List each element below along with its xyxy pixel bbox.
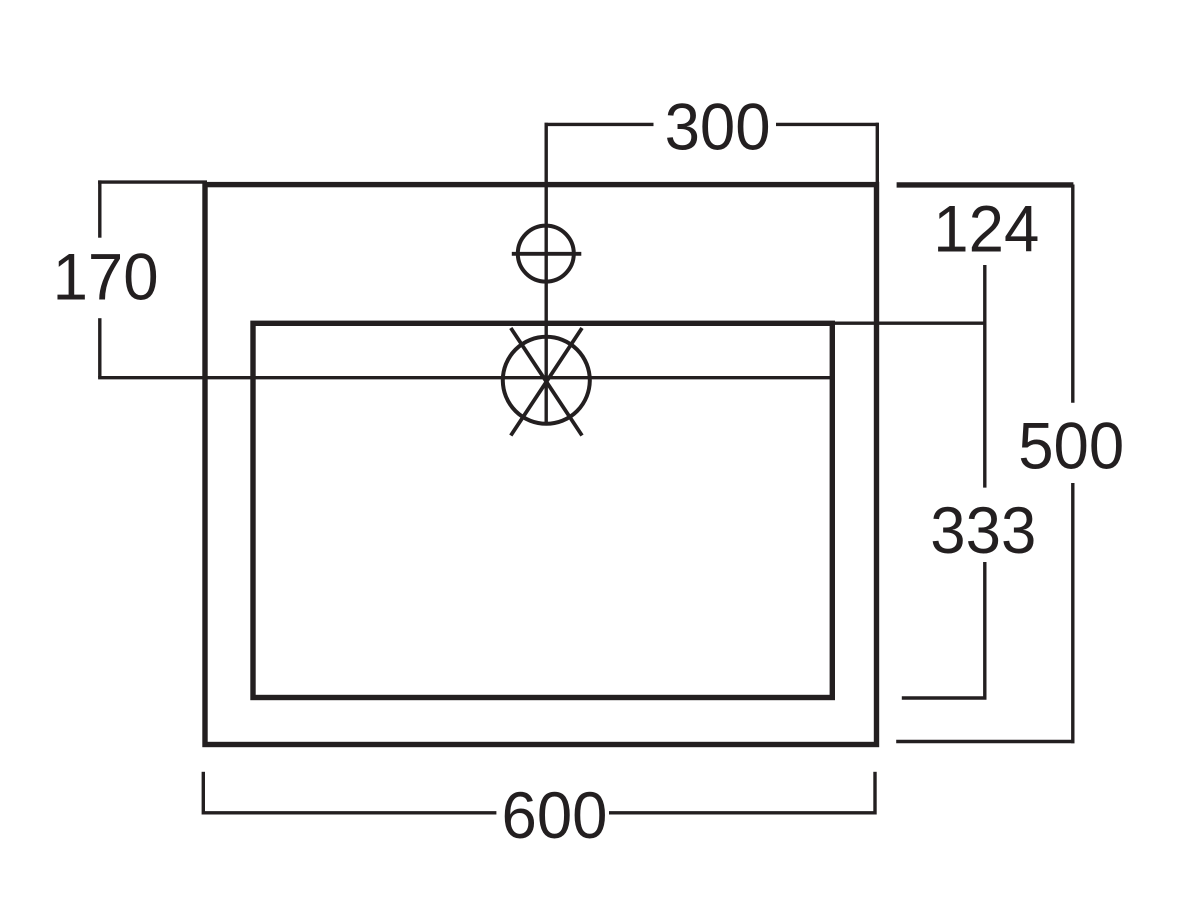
dimension 600 line: [203, 772, 876, 815]
svg-text:333: 333: [930, 493, 1036, 567]
extension line outer bottom (y=741.5): [896, 740, 1074, 743]
dimension 124/333 vertical line: [983, 265, 986, 699]
svg-text:300: 300: [665, 90, 771, 164]
svg-text:124: 124: [933, 192, 1039, 266]
extension line inner-rim bottom (y=698): [902, 696, 987, 699]
outer basin outline: [205, 185, 877, 745]
tap hole symbol: [512, 226, 582, 282]
svg-text:600: 600: [502, 778, 608, 852]
inner bowl outline: [253, 323, 832, 697]
svg-text:170: 170: [53, 239, 159, 313]
extension line top-left (y=182): [98, 180, 207, 183]
extension line inner-rim top (y=323): [832, 322, 987, 325]
drain symbol: [503, 328, 590, 436]
dimension 170 line: [98, 180, 101, 377]
drain horizontal centerline (170 bottom extension): [98, 376, 834, 379]
top-right thick extension line: [897, 182, 1074, 187]
centerline vertical (300 dim left leg through tap and drain): [545, 123, 548, 425]
dimension 300 bracket: [545, 123, 879, 184]
dimension 500 vertical line: [1071, 185, 1074, 744]
svg-text:500: 500: [1018, 409, 1124, 483]
